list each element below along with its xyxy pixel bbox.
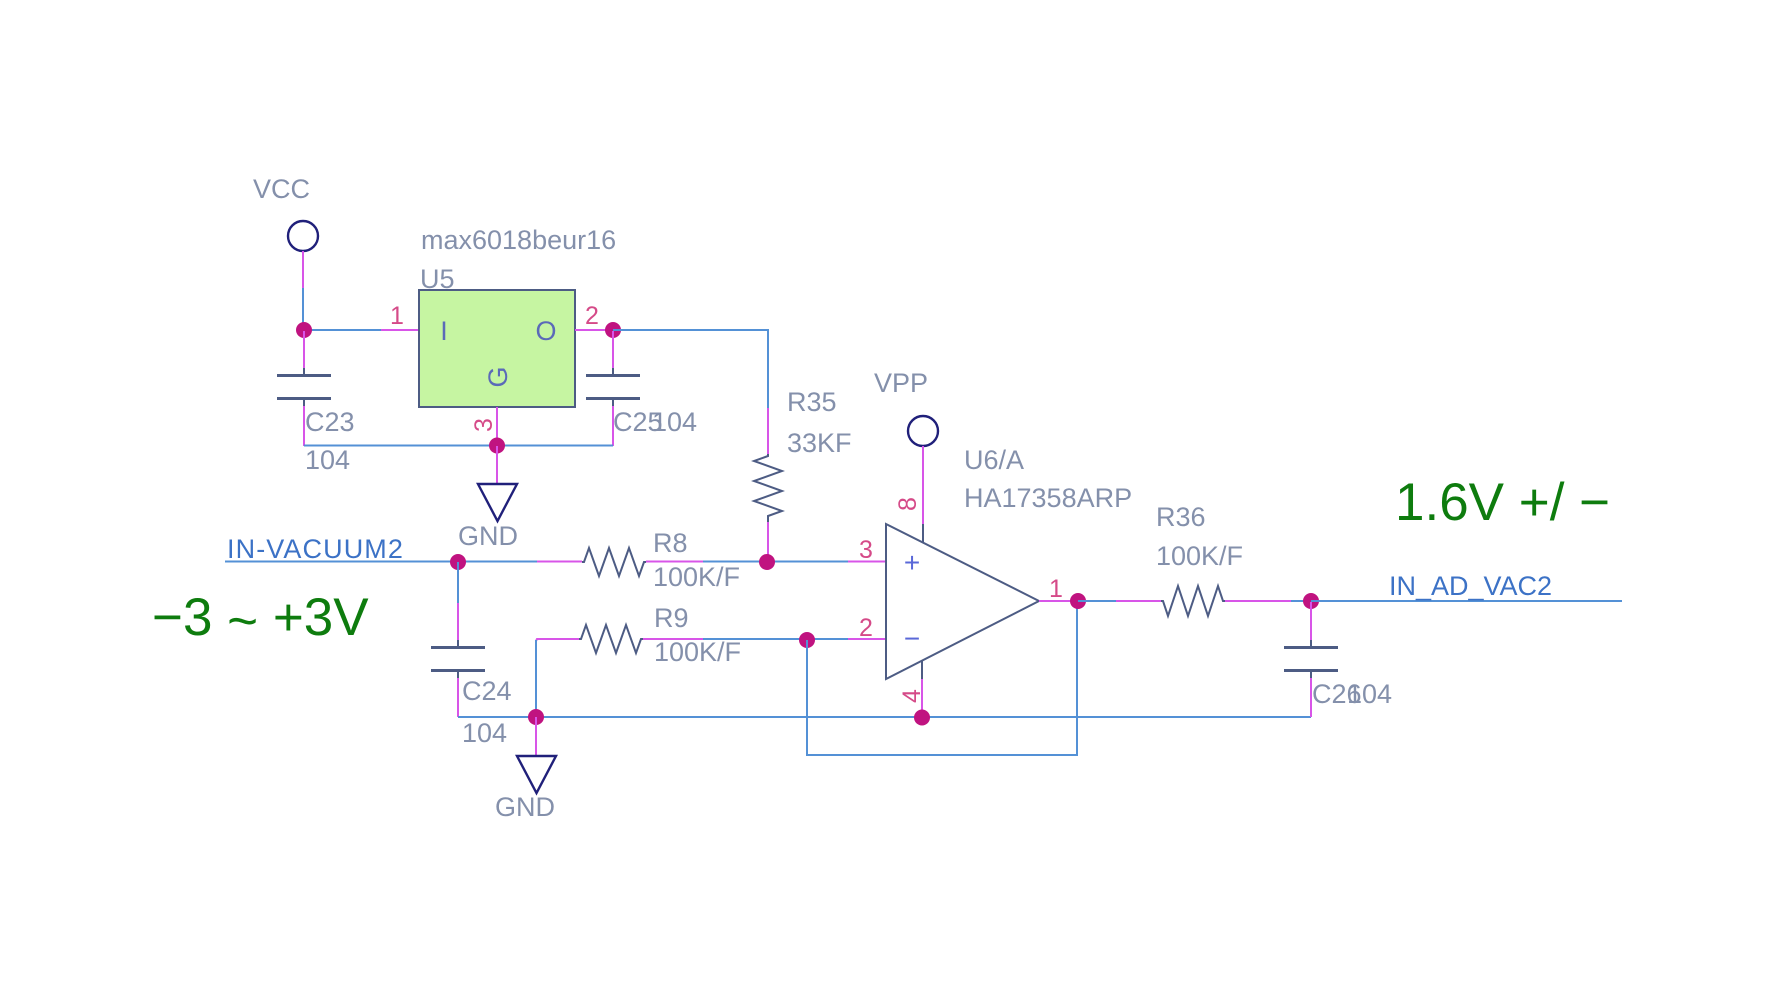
svg-text:4: 4 xyxy=(898,689,926,703)
pin stub U5 pin 1 xyxy=(381,329,419,331)
svg-text:G: G xyxy=(483,366,513,387)
pin stub op-amp pin 2 xyxy=(848,638,886,640)
wire pin2 junction to corner xyxy=(613,330,768,408)
svg-text:C23: C23 xyxy=(305,407,355,437)
wire VCC to node xyxy=(302,288,304,331)
wire node to U5 pin1 xyxy=(303,329,381,331)
svg-text:VCC: VCC xyxy=(253,174,310,204)
wire R36 to output node xyxy=(1291,600,1311,602)
svg-text:VPP: VPP xyxy=(874,368,928,398)
wire bottom ground rail xyxy=(458,716,1311,718)
svg-text:−3 ~ +3V: −3 ~ +3V xyxy=(152,588,369,651)
resistor R9 lead right xyxy=(643,638,703,640)
capacitor C23 plates xyxy=(277,376,331,399)
svg-text:1: 1 xyxy=(390,302,404,330)
resistor R9 lead left corner xyxy=(536,639,579,641)
wire VCC stub xyxy=(302,251,304,288)
capacitor C25 stub top xyxy=(612,331,614,375)
junction VCC/C23/U5 xyxy=(296,322,312,338)
pin stub op-amp pin 1 xyxy=(1039,600,1078,602)
pin stub U5 pin 2 xyxy=(575,329,613,331)
svg-text:O: O xyxy=(535,316,556,346)
resistor R35 lead top xyxy=(767,408,769,454)
svg-text:33KF: 33KF xyxy=(787,428,852,458)
capacitor C23 stub bottom xyxy=(303,399,305,446)
svg-text:R36: R36 xyxy=(1156,502,1206,532)
svg-text:C24: C24 xyxy=(462,676,512,706)
svg-text:8: 8 xyxy=(894,497,922,511)
junction U5 pin3/GND xyxy=(489,438,505,454)
capacitor C23 stub top xyxy=(303,331,305,375)
pin number 8 (rotated) xyxy=(894,497,922,511)
resistor R8 lead left xyxy=(537,561,582,563)
svg-text:104: 104 xyxy=(305,445,350,475)
junction IN-VACUUM2/C24/R8 xyxy=(450,554,466,570)
junction U5 pin2/C25 xyxy=(605,322,621,338)
svg-text:−: − xyxy=(904,623,920,654)
junction R36/C26/output xyxy=(1303,593,1319,609)
svg-text:IN-VACUUM2: IN-VACUUM2 xyxy=(227,534,404,564)
svg-text:R8: R8 xyxy=(653,528,688,558)
resistor R36 lead left xyxy=(1116,600,1161,602)
svg-text:1: 1 xyxy=(1049,575,1063,603)
resistor R36 zigzag xyxy=(1161,586,1225,616)
pin stub op-amp pin 8 xyxy=(922,524,924,543)
pin stub op-amp pin 4 xyxy=(921,660,923,679)
power terminal VCC xyxy=(288,221,318,251)
ground symbol GND (C24) xyxy=(517,756,556,793)
junction R9/feedback xyxy=(799,632,815,648)
capacitor C26 stub top xyxy=(1310,602,1312,647)
capacitor C26 stub bottom xyxy=(1310,671,1312,717)
svg-text:R35: R35 xyxy=(787,387,837,417)
capacitor C25 stub bottom xyxy=(612,399,614,446)
resistor R9 zigzag xyxy=(579,625,643,653)
junction pin1/R36/feedback xyxy=(1070,593,1086,609)
wire R9 corner down xyxy=(535,640,537,717)
svg-text:R9: R9 xyxy=(654,603,689,633)
svg-text:3: 3 xyxy=(859,536,873,564)
ground symbol GND (U5) xyxy=(478,484,517,521)
pin number 3 (U5, rotated) xyxy=(470,418,498,432)
svg-text:100K/F: 100K/F xyxy=(654,637,741,667)
wire ground rail under U5 xyxy=(304,445,613,447)
junction C24/GND rail xyxy=(528,709,544,725)
IC U5 body xyxy=(419,290,575,407)
U5 pin name G (rotated) xyxy=(483,366,513,387)
svg-text:HA17358ARP: HA17358ARP xyxy=(964,483,1132,513)
svg-text:max6018beur16: max6018beur16 xyxy=(421,225,616,255)
resistor R35 lead bottom xyxy=(767,522,769,562)
svg-text:100K/F: 100K/F xyxy=(653,562,740,592)
svg-text:3: 3 xyxy=(470,418,498,432)
wire pin4 to rail xyxy=(921,679,923,718)
svg-text:U6/A: U6/A xyxy=(964,445,1024,475)
svg-text:I: I xyxy=(440,316,448,346)
capacitor C24 stub bottom xyxy=(457,671,459,717)
wire pin3 to ground xyxy=(496,446,498,484)
resistor R8 zigzag xyxy=(582,548,646,576)
svg-text:104: 104 xyxy=(652,407,697,437)
pin stub U5 pin 3 xyxy=(496,407,498,446)
svg-text:IN_AD_VAC2: IN_AD_VAC2 xyxy=(1389,571,1552,601)
wire pin1 to R36 xyxy=(1078,600,1116,602)
resistor R8 lead right xyxy=(646,561,703,563)
wire net IN_AD_VAC2 xyxy=(1311,600,1622,602)
pin stub op-amp pin 3 xyxy=(848,561,886,563)
svg-text:GND: GND xyxy=(495,792,555,822)
op-amp U6/A triangle xyxy=(886,524,1039,679)
junction R8/R35/pin3 xyxy=(759,554,775,570)
svg-text:104: 104 xyxy=(1347,679,1392,709)
resistor R36 lead right xyxy=(1225,600,1291,602)
svg-text:GND: GND xyxy=(458,521,518,551)
junction pin4/rail xyxy=(914,710,930,726)
power terminal VPP xyxy=(908,416,938,446)
svg-text:1.6V +/ −: 1.6V +/ − xyxy=(1395,473,1610,532)
svg-text:2: 2 xyxy=(585,302,599,330)
capacitor C26 plates xyxy=(1284,648,1338,671)
wire VPP to op-amp pin8 xyxy=(922,446,924,524)
capacitor C25 plates xyxy=(586,376,640,399)
wire R9 to op-amp pin2 xyxy=(703,638,848,640)
wire GND2 stub xyxy=(535,717,537,756)
svg-text:2: 2 xyxy=(859,614,873,642)
capacitor C24 plates xyxy=(431,648,485,671)
wire IN-VACUUM2 xyxy=(225,561,537,563)
svg-text:100K/F: 100K/F xyxy=(1156,541,1243,571)
pin number 4 (rotated) xyxy=(898,689,926,703)
resistor R35 zigzag xyxy=(754,454,782,522)
wire R8 to op-amp pin3 xyxy=(703,561,848,563)
feedback wire inverting input loop xyxy=(807,601,1077,755)
capacitor C24 stub top xyxy=(457,562,459,647)
svg-text:+: + xyxy=(904,547,920,578)
svg-text:U5: U5 xyxy=(420,264,455,294)
svg-text:104: 104 xyxy=(462,718,507,748)
